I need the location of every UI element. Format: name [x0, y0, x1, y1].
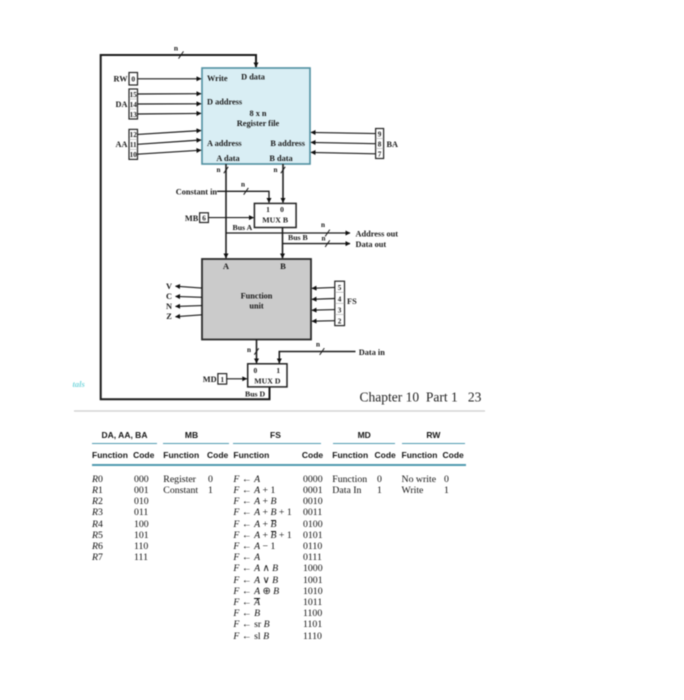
svg-text:n: n [322, 235, 326, 243]
svg-text:1: 1 [221, 376, 225, 384]
svg-text:n: n [174, 44, 179, 53]
svg-text:B address: B address [270, 139, 305, 148]
svg-text:D address: D address [207, 98, 243, 107]
svg-text:MD: MD [203, 375, 217, 384]
svg-text:3: 3 [338, 306, 342, 314]
svg-text:A address: A address [207, 139, 242, 148]
svg-text:Constant in: Constant in [176, 187, 218, 196]
svg-text:MB: MB [185, 214, 199, 223]
svg-text:n: n [274, 166, 278, 174]
svg-text:Function: Function [241, 292, 273, 301]
svg-text:n: n [217, 166, 221, 174]
svg-text:B: B [280, 261, 286, 271]
svg-text:C: C [166, 292, 172, 301]
svg-text:8 x n: 8 x n [249, 109, 266, 118]
svg-text:Bus A: Bus A [233, 223, 253, 232]
svg-text:A data: A data [216, 154, 240, 163]
svg-text:AA: AA [116, 140, 128, 149]
svg-text:B data: B data [269, 154, 293, 163]
svg-text:Chapter 10 Part 1 23: Chapter 10 Part 1 23 [360, 390, 482, 405]
svg-text:MUX D: MUX D [254, 376, 281, 385]
svg-text:FS: FS [347, 297, 357, 306]
svg-text:BA: BA [387, 140, 399, 149]
svg-text:5: 5 [338, 284, 342, 292]
svg-text:8: 8 [378, 140, 382, 148]
svg-text:Write: Write [207, 74, 228, 83]
svg-text:14: 14 [130, 101, 138, 109]
svg-text:tals: tals [73, 379, 86, 389]
svg-text:11: 11 [130, 141, 137, 149]
svg-text:7: 7 [378, 150, 382, 158]
svg-text:n: n [321, 221, 325, 229]
svg-text:Bus D: Bus D [245, 389, 266, 398]
svg-text:Register file: Register file [237, 119, 280, 128]
svg-text:Bus B: Bus B [288, 233, 308, 242]
svg-text:1: 1 [276, 366, 280, 375]
svg-text:unit: unit [249, 302, 264, 311]
svg-text:13: 13 [130, 111, 138, 119]
svg-text:n: n [241, 181, 245, 189]
svg-text:A: A [223, 261, 230, 271]
svg-text:1: 1 [266, 205, 270, 214]
svg-text:9: 9 [378, 130, 382, 138]
svg-text:12: 12 [130, 131, 138, 139]
svg-text:Data in: Data in [359, 348, 385, 357]
svg-text:0: 0 [280, 205, 284, 214]
svg-text:D data: D data [241, 73, 266, 82]
svg-text:MUX B: MUX B [262, 216, 288, 225]
svg-text:15: 15 [130, 91, 138, 99]
svg-text:2: 2 [338, 318, 342, 326]
svg-text:RW: RW [114, 75, 129, 84]
svg-text:n: n [316, 341, 320, 349]
svg-text:Data out: Data out [356, 240, 387, 249]
svg-text:10: 10 [130, 151, 138, 159]
svg-text:V: V [166, 282, 172, 291]
svg-text:n: n [247, 346, 251, 354]
svg-text:0: 0 [254, 366, 258, 375]
svg-text:DA: DA [116, 100, 128, 109]
svg-text:Address out: Address out [356, 229, 399, 238]
svg-text:Z: Z [166, 312, 172, 321]
svg-text:N: N [166, 302, 172, 311]
svg-text:6: 6 [202, 214, 206, 222]
svg-text:4: 4 [338, 295, 342, 303]
svg-text:0: 0 [131, 75, 135, 84]
